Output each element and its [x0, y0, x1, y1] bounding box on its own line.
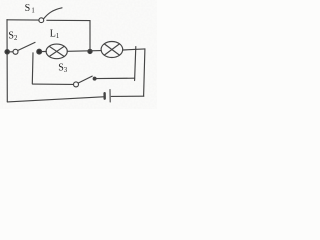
wire S3 branch right segment — [95, 77, 135, 79]
lamp L1 bulb — [46, 44, 67, 59]
wire left rail — [6, 20, 8, 102]
wire bottom rail left of battery — [7, 97, 103, 102]
switch S3 pivot circle — [74, 82, 79, 87]
lamp L1 cross — [49, 46, 64, 56]
switch S1 blade — [44, 8, 63, 19]
wire top rail left segment — [7, 19, 39, 21]
node junction dot left rail / middle rail — [5, 50, 9, 54]
wire middle rail between lamps — [67, 50, 101, 53]
switch S2 pivot circle — [13, 49, 18, 54]
wire bottom rail right of battery — [111, 95, 144, 97]
switch S2 fixed contact dot — [37, 49, 42, 54]
switch S3 fixed contact dot — [93, 77, 96, 80]
switch S2 blade — [18, 42, 35, 50]
switch S1 pivot circle — [39, 18, 44, 23]
wire middle rail contact to lamp L1 — [41, 51, 46, 53]
wire top rail right segment — [47, 19, 90, 21]
node junction dot top-drop / middle rail — [88, 49, 92, 53]
lamp 2 cross — [104, 44, 119, 55]
wire middle rail stub to S2 — [9, 51, 13, 53]
wire S3 branch right riser — [135, 47, 136, 81]
wire S3 branch left segment — [33, 83, 74, 85]
switch S3 blade — [78, 76, 92, 83]
battery positive long plate — [109, 90, 111, 102]
wire middle rail right of lamp 2 — [123, 49, 145, 50]
wire vertical drop from top rail to middle rail — [89, 21, 91, 52]
wire right rail — [144, 49, 145, 96]
wire S3 branch left riser — [31, 53, 34, 84]
lamp 2 bulb — [101, 42, 123, 58]
battery negative short thick plate — [103, 93, 105, 99]
